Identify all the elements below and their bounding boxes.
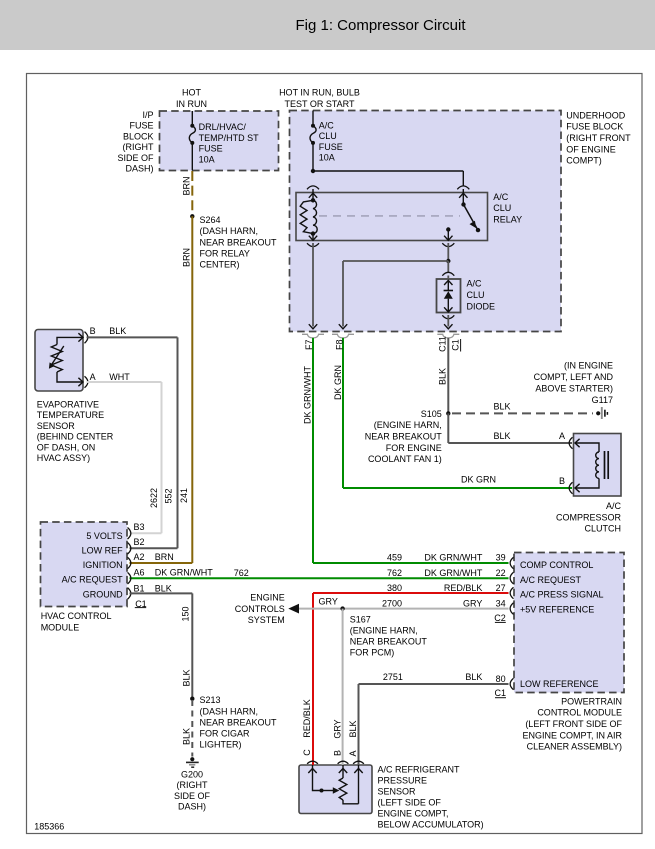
svg-text:CLUTCH: CLUTCH [584, 524, 621, 534]
svg-text:(LEFT SIDE OF: (LEFT SIDE OF [378, 798, 442, 808]
svg-text:ENGINE COMPT, IN AIR: ENGINE COMPT, IN AIR [522, 730, 622, 740]
svg-text:(RIGHT: (RIGHT [177, 780, 208, 790]
svg-text:(ENGINE HARN,: (ENGINE HARN, [350, 625, 418, 635]
svg-text:A2: A2 [134, 552, 145, 562]
svg-text:DK GRN/WHT: DK GRN/WHT [424, 553, 482, 563]
svg-text:150: 150 [180, 606, 190, 621]
svg-text:SIDE OF: SIDE OF [174, 791, 211, 801]
svg-text:SYSTEM: SYSTEM [248, 615, 285, 625]
svg-text:(DASH HARN,: (DASH HARN, [200, 706, 259, 716]
svg-text:COMPRESSOR: COMPRESSOR [556, 512, 622, 522]
svg-text:CLU: CLU [467, 290, 485, 300]
svg-text:TEMPERATURE: TEMPERATURE [37, 410, 104, 420]
svg-text:A/C PRESS SIGNAL: A/C PRESS SIGNAL [520, 590, 604, 600]
svg-text:WHT: WHT [109, 372, 130, 382]
svg-text:BLK: BLK [348, 720, 358, 737]
svg-text:BLK: BLK [438, 368, 448, 385]
svg-text:S167: S167 [350, 614, 371, 624]
svg-text:NEAR BREAKOUT: NEAR BREAKOUT [200, 237, 278, 247]
svg-text:HVAC ASSY): HVAC ASSY) [37, 453, 90, 463]
svg-text:DASH): DASH) [125, 164, 153, 174]
svg-text:COOLANT FAN 1): COOLANT FAN 1) [368, 454, 442, 464]
svg-text:CONTROL MODULE: CONTROL MODULE [537, 708, 622, 718]
svg-text:DK GRN: DK GRN [461, 475, 496, 485]
svg-text:HVAC CONTROL: HVAC CONTROL [41, 611, 112, 621]
svg-text:FUSE: FUSE [129, 121, 153, 131]
svg-text:SENSOR: SENSOR [37, 421, 76, 431]
svg-text:BRN: BRN [182, 248, 192, 267]
svg-text:+5V REFERENCE: +5V REFERENCE [520, 605, 594, 615]
svg-text:Fig 1: Compressor Circuit: Fig 1: Compressor Circuit [295, 17, 466, 34]
svg-text:NEAR BREAKOUT: NEAR BREAKOUT [350, 636, 428, 646]
svg-text:BRN: BRN [182, 176, 192, 195]
svg-text:GROUND: GROUND [83, 589, 123, 599]
svg-text:FOR ENGINE: FOR ENGINE [386, 443, 442, 453]
svg-text:2700: 2700 [382, 598, 402, 608]
svg-text:(LEFT FRONT SIDE OF: (LEFT FRONT SIDE OF [525, 719, 622, 729]
svg-text:A/C REQUEST: A/C REQUEST [62, 575, 124, 585]
svg-text:34: 34 [496, 598, 506, 608]
svg-text:B2: B2 [134, 537, 145, 547]
svg-text:DK GRN/WHT: DK GRN/WHT [424, 568, 482, 578]
svg-text:TEST OR START: TEST OR START [284, 99, 355, 109]
svg-text:B3: B3 [134, 522, 145, 532]
svg-text:S213: S213 [200, 695, 221, 705]
svg-text:459: 459 [387, 553, 402, 563]
svg-text:185366: 185366 [34, 822, 64, 832]
svg-text:C2: C2 [494, 613, 506, 623]
svg-text:RED/BLK: RED/BLK [444, 583, 483, 593]
svg-text:POWERTRAIN: POWERTRAIN [561, 696, 622, 706]
svg-text:10A: 10A [319, 153, 335, 163]
svg-text:FOR RELAY: FOR RELAY [200, 248, 250, 258]
svg-text:EVAPORATIVE: EVAPORATIVE [37, 400, 99, 410]
svg-text:(RIGHT: (RIGHT [123, 142, 154, 152]
svg-text:762: 762 [387, 568, 402, 578]
svg-text:DIODE: DIODE [467, 301, 496, 311]
svg-text:PRESSURE: PRESSURE [378, 776, 428, 786]
svg-text:SIDE OF: SIDE OF [117, 153, 154, 163]
svg-text:C11: C11 [438, 336, 448, 352]
svg-text:80: 80 [496, 674, 506, 684]
svg-text:CENTER): CENTER) [200, 260, 240, 270]
svg-text:COMPT, LEFT AND: COMPT, LEFT AND [534, 372, 614, 382]
svg-text:COMPT): COMPT) [566, 156, 602, 166]
svg-text:BLK: BLK [494, 401, 511, 411]
svg-text:(BEHIND CENTER: (BEHIND CENTER [37, 432, 114, 442]
svg-text:IN RUN: IN RUN [176, 99, 207, 109]
svg-text:A/C: A/C [319, 121, 335, 131]
svg-text:C: C [302, 749, 312, 756]
svg-text:C1: C1 [451, 339, 461, 351]
svg-text:UNDERHOOD: UNDERHOOD [566, 110, 626, 120]
svg-text:BELOW ACCUMULATOR): BELOW ACCUMULATOR) [378, 820, 484, 830]
svg-text:A/C: A/C [467, 278, 483, 288]
svg-text:TEMP/HTD ST: TEMP/HTD ST [199, 133, 260, 143]
svg-text:A: A [90, 372, 96, 382]
svg-text:A/C REQUEST: A/C REQUEST [520, 575, 582, 585]
svg-text:A: A [348, 750, 358, 756]
svg-text:CONTROLS: CONTROLS [235, 604, 285, 614]
svg-text:BLOCK: BLOCK [123, 131, 154, 141]
svg-text:552: 552 [163, 488, 173, 503]
svg-text:C1: C1 [494, 688, 506, 698]
svg-text:BLK: BLK [494, 431, 511, 441]
svg-text:F8: F8 [334, 339, 344, 350]
svg-text:OF ENGINE: OF ENGINE [566, 144, 616, 154]
svg-text:380: 380 [387, 583, 402, 593]
svg-text:HOT: HOT [182, 88, 202, 98]
svg-text:CLEANER ASSEMBLY): CLEANER ASSEMBLY) [527, 742, 622, 752]
svg-text:G200: G200 [181, 770, 203, 780]
svg-text:GRY: GRY [463, 598, 482, 608]
svg-text:RELAY: RELAY [493, 214, 522, 224]
svg-text:A/C: A/C [493, 192, 509, 202]
svg-text:B: B [90, 326, 96, 336]
svg-text:IGNITION: IGNITION [83, 560, 123, 570]
svg-text:ENGINE: ENGINE [250, 593, 285, 603]
svg-text:HOT IN RUN, BULB: HOT IN RUN, BULB [279, 88, 360, 98]
svg-text:S264: S264 [200, 215, 221, 225]
svg-text:ABOVE STARTER): ABOVE STARTER) [535, 383, 613, 393]
svg-text:FUSE BLOCK: FUSE BLOCK [566, 122, 623, 132]
svg-text:FUSE: FUSE [319, 142, 343, 152]
svg-text:22: 22 [496, 568, 506, 578]
svg-text:DK GRN/WHT: DK GRN/WHT [155, 568, 213, 578]
svg-text:GRY: GRY [319, 596, 338, 606]
svg-text:I/P: I/P [142, 110, 153, 120]
svg-text:DASH): DASH) [178, 802, 206, 812]
svg-text:BLK: BLK [109, 326, 126, 336]
svg-text:10A: 10A [199, 154, 215, 164]
svg-text:27: 27 [496, 583, 506, 593]
svg-text:G117: G117 [592, 395, 613, 405]
svg-text:B1: B1 [134, 584, 145, 594]
svg-text:B: B [333, 750, 343, 756]
svg-text:FUSE: FUSE [199, 144, 223, 154]
svg-text:RED/BLK: RED/BLK [302, 699, 312, 738]
svg-text:39: 39 [496, 553, 506, 563]
svg-text:2751: 2751 [383, 672, 403, 682]
svg-text:ENGINE COMPT,: ENGINE COMPT, [378, 809, 449, 819]
svg-text:NEAR BREAKOUT: NEAR BREAKOUT [365, 432, 443, 442]
svg-text:BLK: BLK [155, 584, 172, 594]
svg-text:(RIGHT FRONT: (RIGHT FRONT [566, 133, 631, 143]
svg-text:OF DASH, ON: OF DASH, ON [37, 442, 96, 452]
svg-text:COMP CONTROL: COMP CONTROL [520, 560, 593, 570]
svg-text:B: B [559, 476, 565, 486]
svg-text:FOR CIGAR: FOR CIGAR [200, 729, 251, 739]
svg-text:DRL/HVAC/: DRL/HVAC/ [199, 122, 247, 132]
svg-text:A: A [559, 431, 565, 441]
svg-text:2622: 2622 [149, 488, 159, 508]
svg-text:NEAR BREAKOUT: NEAR BREAKOUT [200, 717, 278, 727]
svg-text:(IN ENGINE: (IN ENGINE [564, 360, 613, 370]
svg-text:FOR PCM): FOR PCM) [350, 647, 395, 657]
svg-text:A/C REFRIGERANT: A/C REFRIGERANT [378, 765, 461, 775]
svg-text:241: 241 [179, 488, 189, 503]
svg-text:CLU: CLU [493, 203, 511, 213]
svg-text:LOW REF: LOW REF [82, 545, 124, 555]
svg-text:5 VOLTS: 5 VOLTS [86, 531, 122, 541]
svg-text:BLK: BLK [465, 672, 482, 682]
svg-text:S105: S105 [421, 409, 442, 419]
svg-text:A6: A6 [134, 568, 145, 578]
svg-text:SENSOR: SENSOR [378, 787, 417, 797]
svg-text:LIGHTER): LIGHTER) [200, 740, 242, 750]
svg-text:F7: F7 [304, 339, 314, 350]
svg-text:A/C: A/C [606, 501, 622, 511]
svg-text:CLU: CLU [319, 131, 337, 141]
svg-text:LOW REFERENCE: LOW REFERENCE [520, 679, 599, 689]
svg-text:762: 762 [234, 568, 249, 578]
svg-text:(DASH HARN,: (DASH HARN, [200, 226, 259, 236]
svg-text:BLK: BLK [182, 728, 192, 745]
svg-text:DK GRN: DK GRN [333, 365, 343, 400]
svg-text:DK GRN/WHT: DK GRN/WHT [303, 366, 313, 424]
svg-text:BRN: BRN [155, 552, 174, 562]
svg-text:BLK: BLK [182, 669, 192, 686]
svg-text:(ENGINE HARN,: (ENGINE HARN, [374, 420, 442, 430]
svg-text:MODULE: MODULE [41, 622, 80, 632]
svg-text:GRY: GRY [333, 719, 343, 738]
